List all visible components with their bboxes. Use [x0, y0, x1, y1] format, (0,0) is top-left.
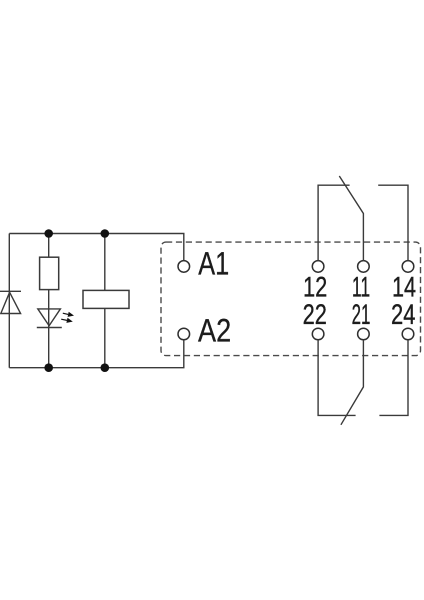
terminal A2 — [178, 328, 190, 340]
svg-text:24: 24 — [391, 299, 415, 331]
terminal 21 — [358, 328, 370, 340]
junction top-right — [101, 229, 110, 238]
resistor R1 — [40, 257, 59, 289]
relay outline (dashed) — [161, 242, 421, 356]
contact arm bottom (21) — [341, 340, 364, 425]
svg-text:A1: A1 — [198, 246, 229, 282]
LED light arrow upper — [63, 312, 74, 317]
relay coil K1 — [83, 290, 129, 308]
wire coil branch bottom — [104, 308, 106, 367]
wire coil branch top — [104, 234, 106, 291]
wire left branch — [8, 234, 10, 368]
svg-text:22: 22 — [303, 299, 327, 331]
wire LED branch middle — [48, 290, 50, 368]
diode V1 — [0, 291, 21, 313]
junction bottom-left — [44, 363, 53, 372]
LED D1 — [37, 309, 62, 328]
terminal 12 — [312, 261, 324, 273]
contact arm top (11) — [339, 176, 363, 261]
terminal 14 — [402, 261, 414, 273]
terminal 24 — [402, 328, 414, 340]
wire LED branch top — [48, 234, 50, 258]
terminal A1 — [178, 261, 190, 273]
wire contact 24 — [379, 340, 408, 416]
wire top rail — [9, 234, 184, 261]
wire contact 22 — [318, 340, 356, 416]
LED light arrow lower — [61, 318, 73, 323]
junction top-left — [44, 229, 53, 238]
wire bottom rail — [9, 340, 184, 368]
wire contact 12 — [318, 185, 350, 260]
terminal 11 — [358, 261, 370, 273]
svg-text:A2: A2 — [198, 312, 231, 348]
wire contact 14 — [378, 185, 408, 260]
terminal 22 — [312, 328, 324, 340]
svg-text:21: 21 — [352, 299, 371, 331]
junction bottom-right — [101, 363, 110, 372]
